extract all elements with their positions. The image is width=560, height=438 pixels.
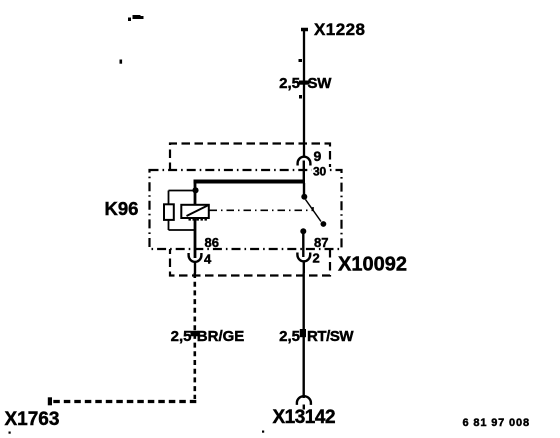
relay coil <box>181 205 209 221</box>
resistor branch wire <box>169 191 196 231</box>
switch contact 30 (stub + dot) <box>301 183 307 200</box>
socket contact, connector pin 2 <box>297 253 310 274</box>
terminal label 30 <box>312 165 329 179</box>
svg-text:9: 9 <box>314 148 322 164</box>
relay K96 outline (dash-dot box) <box>150 170 342 249</box>
arrow tick at X1763 end <box>48 397 52 405</box>
switch arm <box>306 200 322 222</box>
svg-text:87: 87 <box>314 235 328 250</box>
contact 87 (dot + wire down to pin 2) <box>300 228 306 257</box>
svg-text:X13142: X13142 <box>273 407 336 428</box>
svg-text:6 81 97 008: 6 81 97 008 <box>463 417 530 429</box>
junction dot <box>192 187 198 193</box>
switch arm end contact dot <box>321 221 327 227</box>
svg-text:2,5: 2,5 <box>279 328 300 345</box>
svg-text:X10092: X10092 <box>338 254 407 276</box>
wire from X1228 down to connector pin 9 <box>301 29 308 157</box>
socket contact, connector pin 4 <box>189 253 202 273</box>
wire gauge/color label 2,5 BR/GE <box>171 328 245 345</box>
svg-text:2,5: 2,5 <box>171 328 192 345</box>
wire pin 2 to X13142 <box>303 273 305 398</box>
svg-text:86: 86 <box>205 235 219 250</box>
svg-text:2: 2 <box>313 251 320 266</box>
actuation line (dash-dot) from coil to switch <box>210 207 314 210</box>
svg-text:30: 30 <box>313 165 326 179</box>
svg-text:X1228: X1228 <box>314 20 365 39</box>
svg-text:RT/SW: RT/SW <box>307 328 354 345</box>
connector X10092 housing (dashed box) <box>170 144 330 276</box>
resistor (parallel to coil) <box>164 204 174 220</box>
svg-text:4: 4 <box>204 252 212 267</box>
svg-text:X1763: X1763 <box>5 409 60 430</box>
svg-text:K96: K96 <box>105 198 139 219</box>
wire pin 4 to X1763 (dashed) <box>51 273 196 402</box>
svg-text:BR/GE: BR/GE <box>197 328 245 345</box>
svg-text:SW: SW <box>308 75 333 92</box>
socket symbol at X13142 <box>297 396 311 409</box>
wire gauge/color label 2,5 SW <box>279 75 332 92</box>
wire gauge/color label 2,5 RT/SW <box>279 328 354 345</box>
socket contact, connector pin 9 (top) <box>298 157 311 183</box>
coil feed wire (vertical, to pin 86) <box>194 180 197 258</box>
thick bus wire from pin 30 to coil branch <box>194 180 306 184</box>
svg-text:2,5: 2,5 <box>279 75 300 92</box>
